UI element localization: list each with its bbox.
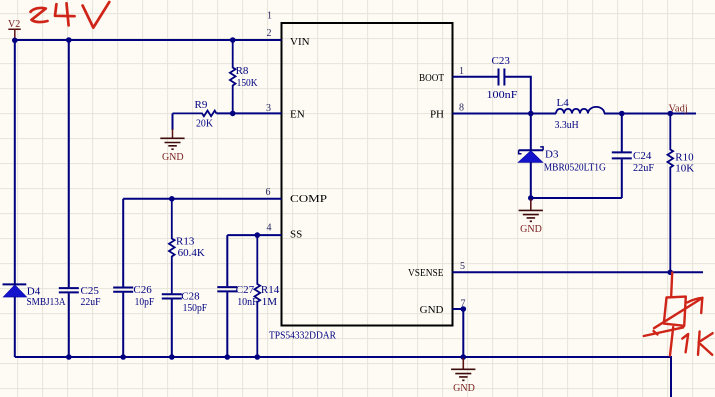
resistor R13 60.4K: [169, 199, 205, 294]
capacitor C23 100nF: [487, 55, 518, 101]
svg-text:10K: 10K: [675, 163, 694, 175]
svg-text:22uF: 22uF: [81, 296, 101, 308]
svg-text:SS: SS: [290, 229, 302, 241]
pin number 7: [461, 298, 466, 309]
pin PH name: [430, 109, 444, 121]
node C24 top junction: [619, 111, 625, 117]
svg-text:BOOT: BOOT: [419, 72, 444, 84]
inductor L4 3.3uH: [555, 97, 605, 131]
node VSENSE/R10 junction: [668, 270, 674, 276]
wire R9 to ground: [172, 113, 174, 130]
pin number 1 (BOOT): [459, 66, 464, 77]
capacitor C24 22uF: [612, 114, 654, 199]
node D3 bottom junction: [528, 195, 534, 201]
capacitor C26 10pF: [113, 284, 154, 308]
svg-text:C25: C25: [81, 285, 100, 297]
op-amp U1 IC body TPS54332DDAR: [269, 23, 453, 342]
svg-text:60.4K: 60.4K: [178, 247, 205, 259]
diode D4 SMBJ13A: [3, 284, 66, 308]
svg-text:3: 3: [266, 103, 271, 114]
wire C23 to PH node: [505, 77, 531, 114]
svg-text:R14: R14: [261, 284, 280, 296]
svg-text:MBR0520LT1G: MBR0520LT1G: [544, 162, 606, 174]
node SS/R14 junction: [254, 232, 260, 238]
svg-text:1: 1: [459, 66, 464, 77]
svg-text:C26: C26: [133, 284, 152, 296]
svg-text:8: 8: [459, 103, 464, 114]
svg-text:C24: C24: [633, 150, 652, 162]
node BOOT/PH junction: [528, 111, 534, 117]
wire GND pin 7: [453, 309, 464, 357]
pin COMP name: [290, 193, 327, 205]
svg-text:VIN: VIN: [290, 36, 310, 48]
node C25 top junction: [66, 37, 72, 43]
capacitor C27 10nF: [217, 284, 257, 308]
pin SS name: [290, 229, 302, 241]
wire L4 to Vadj: [604, 113, 696, 115]
svg-text:R9: R9: [195, 99, 208, 111]
svg-text:GND: GND: [162, 152, 184, 163]
svg-text:V2: V2: [8, 19, 20, 30]
annotation 1k rheostat handwritten: [644, 273, 713, 356]
annotation 24V handwritten: [31, 2, 110, 28]
pin number 6: [266, 187, 271, 198]
wire C28 branch lower: [171, 299, 173, 357]
node C28 bottom junction: [169, 354, 175, 360]
ground GND (main): [451, 358, 475, 394]
svg-text:SMBJ13A: SMBJ13A: [27, 296, 66, 308]
wire VSENSE pin 5: [453, 271, 704, 273]
wire COMP pin 6: [123, 198, 281, 200]
wire C26 branch lower: [122, 293, 124, 357]
resistor R10 10K: [668, 114, 695, 273]
svg-text:Vadj: Vadj: [669, 104, 688, 115]
pin VIN name: [290, 36, 310, 48]
wire D3 branch: [530, 114, 532, 199]
node V2 junction: [12, 38, 18, 44]
node COMP/R13 junction: [169, 196, 175, 202]
svg-text:GND: GND: [420, 304, 444, 316]
svg-text:COMP: COMP: [290, 193, 327, 205]
svg-text:R13: R13: [176, 235, 195, 247]
svg-text:C28: C28: [181, 290, 200, 302]
wire bottom rail: [15, 357, 671, 397]
svg-text:L4: L4: [557, 97, 570, 109]
resistor R9 20K: [173, 99, 217, 130]
capacitor C28 150pF: [162, 290, 207, 314]
wire left rail: [14, 40, 16, 283]
svg-text:R10: R10: [675, 151, 694, 163]
wire EN pin 3: [216, 112, 281, 114]
svg-text:10pF: 10pF: [135, 296, 155, 308]
svg-text:20K: 20K: [196, 117, 213, 129]
pin EN name: [290, 108, 305, 120]
svg-text:22uF: 22uF: [633, 162, 654, 174]
wire left rail lower: [14, 297, 16, 357]
svg-text:GND: GND: [453, 383, 475, 394]
svg-text:GND: GND: [520, 224, 542, 235]
wire C25 branch upper: [68, 40, 70, 287]
svg-text:R8: R8: [236, 65, 249, 77]
node Vadj junction: [668, 111, 674, 117]
capacitor C25 22uF: [59, 285, 101, 308]
pin number 4: [267, 222, 272, 233]
svg-text:PH: PH: [430, 109, 444, 121]
svg-text:1: 1: [267, 11, 272, 22]
svg-text:6: 6: [266, 187, 271, 198]
ground GND (EN divider): [160, 129, 184, 163]
node GND/bottom rail junction: [461, 354, 467, 360]
node R8 top junction: [230, 37, 236, 43]
wire C26 branch upper: [122, 199, 124, 287]
svg-text:TPS54332DDAR: TPS54332DDAR: [269, 330, 337, 342]
pin number 8: [459, 103, 464, 114]
svg-text:EN: EN: [290, 108, 305, 120]
wire SS pin 4: [227, 234, 281, 236]
node C25 bottom junction: [66, 354, 72, 360]
ground GND (D3/C24): [519, 199, 543, 235]
pin BOOT name: [419, 72, 444, 84]
wire top rail V2 to VIN: [14, 39, 282, 41]
svg-text:3.3uH: 3.3uH: [555, 119, 579, 131]
wire C27 branch lower: [226, 292, 228, 357]
node C26 bottom junction: [120, 354, 126, 360]
svg-text:4: 4: [267, 222, 272, 233]
svg-text:150pF: 150pF: [183, 302, 208, 314]
pin number 5: [460, 261, 465, 272]
svg-text:C23: C23: [492, 55, 511, 67]
node R8/EN junction: [230, 111, 236, 117]
node R14 bottom junction: [254, 354, 260, 360]
resistor R8 150K: [230, 40, 258, 113]
wire BOOT pin 1: [453, 76, 498, 78]
pin GND name: [420, 304, 444, 316]
wire C25 branch lower: [68, 293, 70, 357]
wire C24 bottom to D3: [531, 197, 622, 199]
power port V2: [8, 19, 21, 40]
node C27 bottom junction: [225, 354, 231, 360]
svg-text:C27: C27: [236, 284, 255, 296]
svg-text:2: 2: [267, 28, 272, 39]
svg-text:100nF: 100nF: [487, 89, 518, 101]
pin VSENSE name: [408, 267, 444, 279]
pin number 2: [267, 28, 272, 39]
svg-text:VSENSE: VSENSE: [408, 267, 444, 279]
svg-text:D3: D3: [545, 148, 559, 160]
resistor R14 1M: [254, 235, 279, 357]
net label Vadj: [669, 104, 688, 115]
svg-text:150K: 150K: [237, 77, 258, 89]
node GND pin corner: [461, 306, 467, 312]
wire PH pin 8: [453, 113, 557, 115]
svg-text:5: 5: [460, 261, 465, 272]
svg-text:1M: 1M: [262, 296, 278, 308]
pin number 3: [266, 103, 271, 114]
diode D3 MBR0520LT1G: [518, 147, 606, 174]
pin number 1 (top): [267, 11, 272, 22]
wire C27 branch upper: [226, 235, 228, 286]
